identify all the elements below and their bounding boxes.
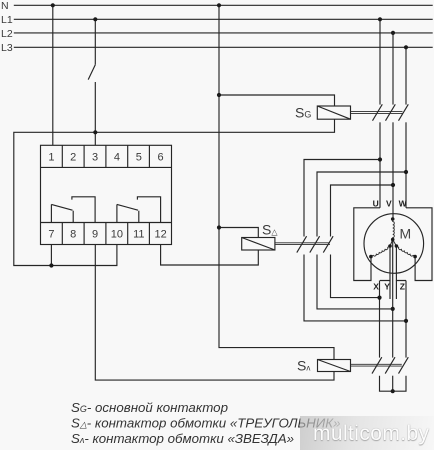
motor winding V-Y xyxy=(393,220,395,239)
contact arm 10 xyxy=(117,204,138,210)
watermark xyxy=(300,416,434,450)
svg-text:1: 1 xyxy=(48,152,54,164)
wire L1 drop to SG contact xyxy=(379,19,381,104)
node N drop 2 xyxy=(217,3,221,7)
wire S-star middle pole to bar xyxy=(392,376,394,392)
svg-text:X: X xyxy=(373,282,379,292)
node S-delta coil top xyxy=(217,225,221,229)
bus L2 xyxy=(14,32,433,34)
motor M1 circle xyxy=(364,214,424,274)
svg-text:6: 6 xyxy=(158,152,164,164)
wire N to relay terminal 1 xyxy=(52,5,54,145)
wire V phase: SG to motor xyxy=(392,122,394,219)
motor winding U-X xyxy=(371,246,390,257)
svg-text:S△: S△ xyxy=(262,222,278,238)
bus L3 xyxy=(14,46,433,48)
wire N drop to coils xyxy=(219,5,334,359)
node V phase tap xyxy=(391,183,395,187)
motor tab bottom right segment xyxy=(396,246,406,281)
node W phase tap xyxy=(404,170,408,174)
node Y junction xyxy=(391,307,395,311)
svg-text:3: 3 xyxy=(92,152,98,164)
motor tab bottom left segment xyxy=(380,246,390,281)
S-star contact blade pole 1 xyxy=(372,357,382,373)
SG contact blade pole 3 xyxy=(399,104,409,120)
motor star point connectors xyxy=(390,240,396,247)
wire S-delta pole 1 to Z xyxy=(304,255,406,321)
bus N xyxy=(14,4,433,6)
wire SG coil top xyxy=(219,95,335,106)
wire S-star star point bar xyxy=(380,376,407,392)
node winding W-Z outer xyxy=(413,255,417,259)
svg-text:10: 10 xyxy=(111,229,123,241)
wire W phase: SG to motor tap xyxy=(405,122,407,208)
S-delta contact blade pole 1 xyxy=(297,236,307,252)
svg-text:9: 9 xyxy=(92,229,98,241)
svg-text:11: 11 xyxy=(133,229,144,241)
node Z junction xyxy=(404,319,408,323)
S-delta linkage xyxy=(275,243,330,245)
relay terminal dividers top row xyxy=(62,145,149,167)
svg-text:7: 7 xyxy=(48,229,54,241)
contactor coil SG xyxy=(317,106,350,119)
relay bottom terminal row line xyxy=(41,222,172,224)
motor terminal labels X Y Z xyxy=(373,282,405,292)
SG linkage xyxy=(351,112,403,114)
node L2 to SG xyxy=(391,31,395,35)
relay block K1 outline xyxy=(41,145,172,244)
SG contact blade pole 2 xyxy=(386,104,396,120)
svg-text:12: 12 xyxy=(154,229,166,241)
contact bracket to pin 12 xyxy=(137,197,160,223)
pin numbers 7-12 xyxy=(48,229,166,241)
wire switch to relay terminal 3 xyxy=(94,82,96,145)
wire SG coil bottom to rail xyxy=(14,119,335,265)
contact bracket to pin 9 xyxy=(72,197,95,223)
svg-text:Y: Y xyxy=(384,282,390,292)
bus L1 xyxy=(14,18,433,20)
relay terminal dividers bottom row xyxy=(62,223,149,245)
contact stub pin 11 xyxy=(138,211,140,223)
svg-text:W: W xyxy=(399,199,408,209)
node winding U-X inner xyxy=(388,244,392,248)
wire Y terminal down to S-star pole 2 xyxy=(392,240,394,358)
contact stub pin 10 xyxy=(116,204,118,222)
svg-text:L2: L2 xyxy=(1,28,13,40)
wire motor W terminal loop (right outline) xyxy=(406,208,432,281)
S-delta contact blade pole 2 xyxy=(310,236,320,252)
wire terminal 9 to S-star coil bottom xyxy=(95,245,334,381)
switch S1 blade xyxy=(88,65,95,80)
pin numbers 1-6 xyxy=(48,152,163,164)
node L1 drop xyxy=(93,17,97,21)
svg-text:SG: SG xyxy=(295,105,311,121)
legend xyxy=(71,400,340,446)
S-star contact blade pole 3 xyxy=(399,357,409,373)
wire S-delta pole 3 to X xyxy=(331,255,380,298)
wire motor U terminal loop (left outline) xyxy=(354,208,380,281)
node SG coil top xyxy=(217,93,221,97)
node terminal 7 rail xyxy=(49,263,53,267)
motor terminal labels U V W xyxy=(373,199,408,209)
S-delta contact blade pole 3 xyxy=(323,236,333,252)
contact stub pin 7 xyxy=(50,204,52,222)
wire L3 drop to SG contact xyxy=(405,47,407,104)
node motor V entry xyxy=(391,217,395,221)
contactor coil S-delta xyxy=(242,238,275,251)
svg-text:Z: Z xyxy=(400,282,405,292)
relay top terminal row line xyxy=(41,166,172,168)
node L1 to SG xyxy=(378,17,382,21)
wire tap V phase to S-delta pole 3 xyxy=(331,185,394,237)
contact arm 7 xyxy=(51,204,72,210)
svg-text:4: 4 xyxy=(114,152,120,164)
node L1 rail junction xyxy=(93,130,97,134)
motor winding W-Z xyxy=(396,246,415,257)
wire U phase: SG to motor tap xyxy=(379,122,381,208)
relay contact group 7-8-9 xyxy=(51,197,95,223)
wire Z terminal down to S-star pole 3 xyxy=(405,281,407,358)
node L3 to SG xyxy=(404,45,408,49)
wire L2 drop to SG contact xyxy=(392,33,394,105)
svg-text:L1: L1 xyxy=(1,14,13,26)
svg-text:8: 8 xyxy=(70,229,76,241)
node motor star center xyxy=(391,238,395,242)
svg-text:V: V xyxy=(386,199,392,209)
svg-text:2: 2 xyxy=(70,152,76,164)
svg-text:SG- основной контактор: SG- основной контактор xyxy=(71,400,228,415)
wire terminal 7 down to rail xyxy=(50,245,52,266)
wire L1 to switch xyxy=(94,19,96,64)
svg-text:5: 5 xyxy=(136,152,142,164)
svg-text:Sʌ- контактор обмотки «ЗВЕЗДА»: Sʌ- контактор обмотки «ЗВЕЗДА» xyxy=(71,431,294,446)
node winding W-Z inner xyxy=(395,244,399,248)
node X junction xyxy=(377,296,381,300)
wire tap W phase to S-delta pole 2 xyxy=(317,172,406,237)
svg-text:L3: L3 xyxy=(1,42,13,54)
svg-text:N: N xyxy=(1,0,9,12)
wire terminal 12 to S-delta coil bottom xyxy=(161,245,259,266)
relay contact group 10-11-12 xyxy=(117,197,161,223)
node U phase tap xyxy=(378,157,382,161)
svg-text:U: U xyxy=(373,199,379,209)
contact stub pin 8 xyxy=(72,211,74,223)
S-star linkage xyxy=(351,364,402,366)
node star bar xyxy=(391,389,395,393)
contactor coil S-star xyxy=(318,360,351,372)
SG contact blade pole 1 xyxy=(373,104,383,120)
motor tab slot legs under Y xyxy=(390,281,396,300)
wire X terminal down to S-star pole 1 xyxy=(379,281,381,358)
wire S-delta pole 2 to Y xyxy=(317,255,393,309)
wire S-delta coil top xyxy=(219,228,258,238)
node N drop 1 xyxy=(51,3,55,7)
svg-text:M: M xyxy=(400,226,412,242)
svg-text:Sʌ: Sʌ xyxy=(297,358,310,374)
node winding U-X outer xyxy=(369,255,373,259)
S-star contact blade pole 2 xyxy=(385,357,395,373)
wire tap U phase to S-delta pole 1 xyxy=(304,160,380,237)
